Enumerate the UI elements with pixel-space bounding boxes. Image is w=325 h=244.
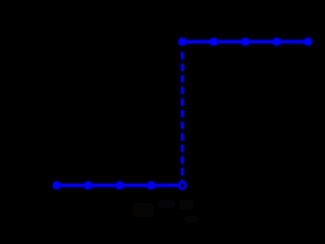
node marker t=3 <box>273 38 281 46</box>
dashed transition line at t=0 <box>181 52 184 181</box>
faint residual label blob 2 <box>158 200 175 208</box>
node marker t=0 filled <box>178 38 186 46</box>
node marker t=-2 <box>116 181 124 189</box>
glow layer under step plot <box>53 38 312 190</box>
faint residual label blob 4 <box>184 216 199 222</box>
wire: lower step segment u(t)=0 for t<0 <box>57 184 179 187</box>
wire: upper step segment u(t)=1 for t>=0 <box>182 40 308 43</box>
node marker t=2 <box>241 38 249 46</box>
open circle at (0,0) discontinuity <box>179 182 186 189</box>
faint residual label blob 3 <box>179 200 193 210</box>
node marker t=-3 <box>84 181 92 189</box>
node marker t=-1 <box>147 181 155 189</box>
node marker t=1 <box>210 38 218 46</box>
node marker t=-4 <box>53 181 61 189</box>
node marker t=4 <box>304 38 312 46</box>
faint residual label blob 1 <box>132 203 154 217</box>
